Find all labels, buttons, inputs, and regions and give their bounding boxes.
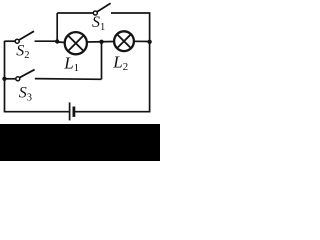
wire: left vertical [4,41,6,112]
wire: top branch vertical [56,13,58,42]
wire: right vertical [149,13,151,113]
wire: lamp L2 to node C [134,40,149,42]
wire: top row left segment [57,12,93,14]
wire: top row right segment [111,12,150,14]
switch S1 lever [97,3,111,12]
switch S3 pivot [16,77,20,81]
lamp L1 [65,32,87,54]
switch S3 lever [20,70,35,78]
node D junction dot [2,77,6,81]
wire: node A to lamp L1 [57,41,64,43]
lamp L2 [114,31,134,51]
node A junction dot [55,39,59,43]
switch S2 lever [19,31,34,40]
battery B1 long plate [69,102,71,120]
switch S1 pivot [93,11,97,15]
wire: bottom left of battery [4,111,69,113]
wire: node D to S3 [5,78,16,80]
black band (scan crop) [0,124,160,161]
wire: lamp L1 to node B [88,41,114,44]
node C junction dot [147,40,151,44]
battery B1 short plate [73,107,76,117]
node B junction dot [99,40,103,44]
wire: S3 contact to corner [35,78,102,81]
wire: main row from left corner to S2 [5,40,16,42]
wire: S3 branch vertical up to node B [101,42,103,80]
wire: S2 contact to node A [35,40,58,42]
switch S2 pivot [15,39,19,43]
wire: bottom right of battery [75,111,150,113]
